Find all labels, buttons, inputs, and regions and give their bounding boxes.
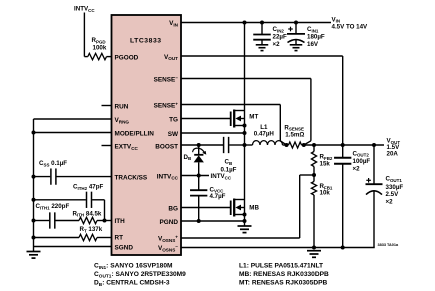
- svg-text:16V: 16V: [307, 41, 319, 48]
- svg-text:20A: 20A: [387, 151, 399, 158]
- svg-text:100k: 100k: [93, 45, 107, 52]
- svg-text:RT: RT: [115, 235, 124, 242]
- svg-text:10k: 10k: [320, 190, 331, 197]
- svg-text:1.5mΩ: 1.5mΩ: [285, 132, 304, 139]
- svg-text:SENSE+: SENSE+: [154, 101, 179, 109]
- svg-text:4.5V TO 14V: 4.5V TO 14V: [332, 23, 369, 30]
- svg-text:MT: RENESAS RJK0305DPB: MT: RENESAS RJK0305DPB: [239, 280, 328, 287]
- svg-text:SGND: SGND: [115, 244, 134, 251]
- svg-text:PGND: PGND: [160, 219, 179, 226]
- svg-text:L1: PULSE PA0515.471NLT: L1: PULSE PA0515.471NLT: [239, 263, 323, 270]
- svg-text:SW: SW: [168, 131, 179, 138]
- svg-text:×2: ×2: [353, 166, 361, 173]
- svg-text:RUN: RUN: [115, 103, 129, 110]
- svg-text:RITH 84.5k: RITH 84.5k: [73, 210, 102, 217]
- svg-text:×2: ×2: [273, 41, 281, 48]
- svg-text:MODE/PLLIN: MODE/PLLIN: [115, 131, 155, 138]
- svg-text:TG: TG: [169, 116, 178, 123]
- svg-text:BOOST: BOOST: [155, 143, 178, 150]
- svg-text:MB: MB: [249, 205, 259, 212]
- svg-text:2.5V: 2.5V: [386, 191, 400, 198]
- svg-text:15k: 15k: [320, 160, 331, 167]
- svg-text:100µF: 100µF: [353, 158, 371, 165]
- svg-text:180µF: 180µF: [307, 33, 325, 40]
- svg-text:LTC3833: LTC3833: [130, 38, 162, 45]
- svg-text:4.7µF: 4.7µF: [210, 193, 226, 200]
- svg-text:RT 137k: RT 137k: [80, 226, 103, 233]
- svg-text:TRACK/SS: TRACK/SS: [115, 175, 148, 182]
- svg-text:330µF: 330µF: [386, 184, 404, 191]
- svg-text:22µF: 22µF: [273, 33, 287, 40]
- svg-text:0.47µH: 0.47µH: [254, 131, 275, 138]
- svg-text:ITH: ITH: [115, 218, 126, 225]
- svg-text:3833 TA01a: 3833 TA01a: [378, 243, 400, 247]
- svg-text:SENSE−: SENSE−: [154, 75, 179, 83]
- svg-text:×2: ×2: [386, 199, 394, 206]
- svg-text:MB: RENESAS RJK0330DPB: MB: RENESAS RJK0330DPB: [239, 271, 329, 278]
- svg-text:PGOOD: PGOOD: [115, 54, 139, 61]
- svg-text:BG: BG: [168, 205, 178, 212]
- svg-text:MT: MT: [249, 114, 258, 121]
- svg-text:CSS 0.1µF: CSS 0.1µF: [39, 160, 67, 167]
